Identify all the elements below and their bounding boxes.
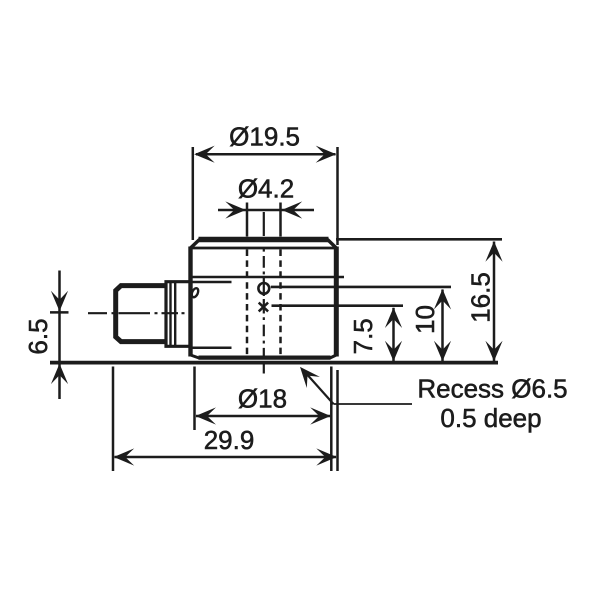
svg-text:Ø19.5: Ø19.5 (229, 122, 300, 152)
arrow dim10 top (434, 289, 451, 310)
recess leader horizontal (334, 403, 413, 405)
dim 29.9 left extension line (112, 367, 115, 472)
svg-text:Ø4.2: Ø4.2 (238, 174, 294, 204)
connector collar ring line 2 (174, 282, 176, 347)
arrow dim6.5 top (outside, pointing down) (51, 291, 68, 312)
dim 7.5 extension line (272, 304, 404, 307)
dim 4.2 right extension line (279, 203, 282, 237)
dim 16.5 extension line (336, 238, 502, 241)
arrow dim19.5 right (316, 146, 337, 163)
connector bore top line inside body (191, 281, 232, 284)
small hole detail o on body (190, 287, 199, 298)
dim 18 dimension line (196, 415, 330, 418)
dim 10 dimension line (441, 290, 444, 362)
dim 19.5 left extension line (192, 147, 195, 240)
dim 10 extension line (271, 286, 451, 289)
svg-text:Ø18: Ø18 (238, 384, 287, 414)
svg-text:Recess Ø6.5: Recess Ø6.5 (417, 374, 567, 404)
body bottom-right chamfer (330, 355, 336, 358)
connector collar ring line 1 (169, 282, 171, 347)
arrow dim18 right (310, 407, 331, 424)
dim 19.5 dimension line (196, 153, 336, 156)
svg-text:7.5: 7.5 (348, 318, 378, 354)
mounting surface line (50, 361, 498, 365)
recess leader diagonal (304, 371, 334, 404)
dim 19.5 right extension line (336, 147, 339, 245)
body right side (334, 247, 339, 357)
arrow dim18 left (196, 407, 217, 424)
dim 29.9 dimension line (115, 456, 337, 459)
arrow dim29.9 left (114, 448, 135, 465)
arrow dim29.9 right (316, 448, 337, 465)
dim 18 right extension line (330, 367, 333, 472)
svg-text:10: 10 (410, 305, 440, 334)
arrow dim4.2 left (outside) (225, 201, 246, 218)
thread stub outline with chamfered end (116, 286, 166, 342)
body left side (188, 247, 192, 357)
svg-text:0.5 deep: 0.5 deep (440, 403, 541, 433)
svg-text:16.5: 16.5 (466, 272, 496, 323)
arrow dim10 bottom (434, 341, 451, 362)
body top-right chamfer (328, 240, 337, 249)
connector collar outline (165, 280, 191, 348)
hidden hole line left (dashed) (246, 250, 249, 357)
svg-text:29.9: 29.9 (204, 425, 255, 455)
vertical centerline (dash-dot) (263, 212, 265, 374)
body top-left chamfer (191, 240, 200, 249)
dim 6.5 dimension line (58, 271, 61, 400)
arrow dim4.2 right (outside) (282, 201, 303, 218)
dim 29.9 right extension line (336, 370, 339, 471)
feature circle on centerline (258, 283, 269, 294)
dim 4.2 left extension line (246, 203, 249, 237)
dim 4.2 dimension line with outside tails (218, 209, 246, 212)
body joint line (191, 276, 345, 279)
feature cross marker (259, 303, 268, 312)
horizontal centerline (dash-dot) (88, 312, 185, 314)
arrow dim16.5 top (485, 241, 502, 262)
dim 6.5 tick at centerline (50, 311, 69, 314)
arrow dim16.5 bottom (485, 341, 502, 362)
body flange line (189, 247, 338, 250)
body bottom-left chamfer (191, 355, 200, 358)
arrow recess leader (293, 361, 319, 388)
arrow dim19.5 left (194, 146, 215, 163)
dim 7.5 dimension line (392, 308, 395, 361)
body bottom face (recessed) (199, 356, 331, 360)
svg-text:6.5: 6.5 (23, 318, 53, 354)
dim 16.5 dimension line (493, 242, 496, 362)
hidden hole line right (dashed) (279, 250, 282, 357)
arrow dim7.5 bottom (385, 341, 402, 362)
dim 18 left extension line (193, 367, 196, 431)
arrow dim6.5 bottom (outside, pointing up) (51, 364, 68, 385)
arrow dim7.5 top (385, 308, 402, 329)
body top face (thick) (199, 237, 329, 243)
connector bore bottom line inside body (191, 347, 232, 350)
